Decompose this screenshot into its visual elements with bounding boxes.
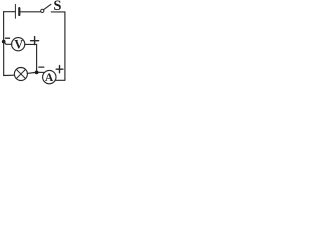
switch pivot circle [41,9,44,12]
wire node to voltmeter [4,42,12,45]
wire right vertical [64,12,66,80]
junction node dot on left wire [2,40,6,44]
wire voltmeter branch vertical [36,44,38,72]
svg-text:S: S [53,0,61,14]
wire bottom-right horizontal [55,79,65,81]
wire switch to top-right corner [51,11,65,13]
wire battery to switch [20,11,40,13]
wire voltmeter to branch corner [25,43,37,45]
svg-text:A: A [45,71,54,84]
minus label at ammeter [39,66,44,68]
lamp L1 circle [14,68,27,81]
junction node dot on bottom branch [35,71,39,75]
ammeter A1 circle [43,70,56,83]
plus label at ammeter [56,66,63,73]
voltmeter V1 circle [12,38,25,51]
switch blade [44,4,51,9]
wire lamp to junction [27,72,35,75]
wire junction to ammeter [37,71,45,73]
wire bottom-left horizontal [4,74,15,76]
plus label at voltmeter [31,37,39,45]
wire top-left horizontal [4,11,16,13]
svg-text:V: V [14,37,23,51]
minus label at voltmeter [6,37,10,39]
lamp X diagonal 2 [16,69,25,78]
wire left vertical [3,12,5,76]
battery short plate [18,8,20,15]
battery long plate [14,4,16,18]
lamp X diagonal 1 [16,69,25,78]
